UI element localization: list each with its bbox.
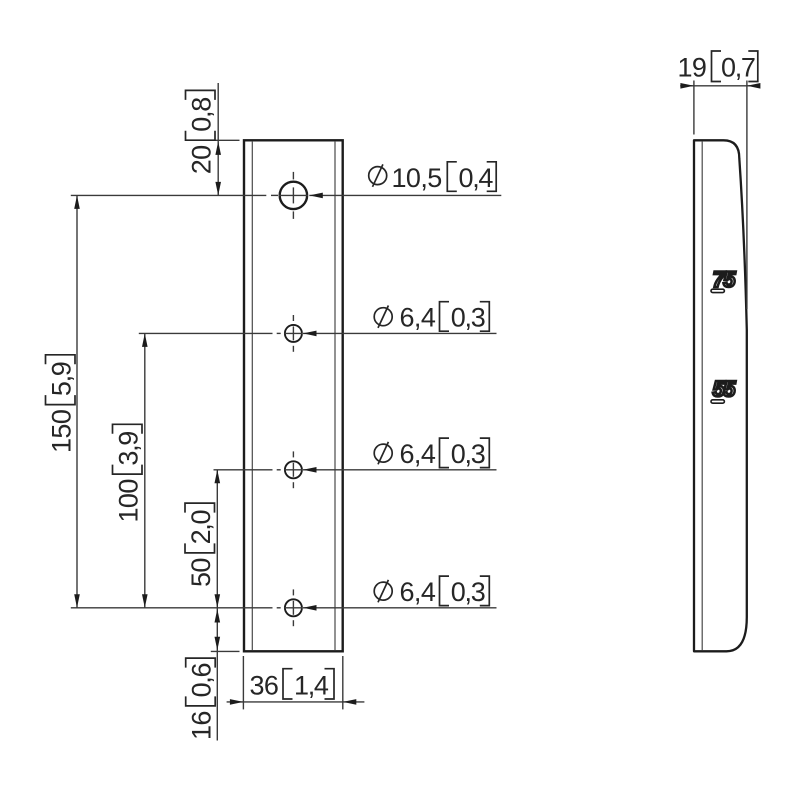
dim 16 line [216,608,218,741]
dim 19 extension lines [693,81,695,135]
centerline hole 2 vertical [292,315,294,321]
leader hole 1 [309,194,501,196]
svg-text:20: 20 [187,145,217,174]
svg-text:0,7: 0,7 [721,53,755,83]
dim 16 extension line (bottom edge) [211,650,240,652]
svg-text:1,4: 1,4 [294,671,329,701]
svg-text:0,3: 0,3 [451,577,485,607]
svg-text:2,0: 2,0 [186,510,216,544]
side view profile [694,140,747,651]
svg-text:150: 150 [47,410,77,453]
svg-text:19: 19 [678,53,707,83]
hole 1 (d10.5) [280,182,307,209]
dim text 50 [2,0] [185,503,216,587]
dim 150 line [76,195,78,607]
hole 2 (d6.4) [285,325,302,342]
centerline hole 4 horizontal [71,607,273,609]
centerline hole 1 vertical [292,172,294,180]
dim 20 extension line (top edge) [211,139,240,141]
leader hole 3 [303,469,497,471]
dim 20 line [217,83,219,195]
side view bend line [701,142,703,651]
dim 19 line [680,85,760,87]
svg-text:16: 16 [187,711,217,740]
leader hole 2 [303,332,497,334]
svg-text:0,8: 0,8 [187,98,217,132]
hole 3 (d6.4) [285,461,302,478]
svg-text:55: 55 [713,377,737,402]
svg-text:100: 100 [114,479,144,522]
svg-text:6,4: 6,4 [400,577,436,607]
dim 100 line [144,333,146,607]
dim 36 line [227,701,365,703]
svg-text:5,9: 5,9 [47,362,77,396]
dim 36 extension lines [242,656,244,709]
svg-text:0,3: 0,3 [451,439,485,469]
centerline hole 3 horizontal [214,469,273,471]
callout d6,4 [0,3] hole 2 [374,308,392,326]
callout d10,5 [0,4] [369,167,387,185]
svg-text:6,4: 6,4 [400,303,436,333]
dim 50 line [216,470,218,608]
dim text 100 [3,9] [113,424,144,522]
centerline hole 4 vertical [292,589,294,595]
centerline hole 1 horizontal [71,194,266,196]
dim text 16 [0,6] [186,658,217,740]
centerline hole 2 horizontal [139,332,273,334]
callout d6,4 [0,3] hole 3 [374,444,392,462]
callout d6,4 [0,3] hole 4 [374,582,392,600]
dim text 150 [5,9] [46,355,77,453]
centerline hole 3 vertical [292,451,294,457]
svg-text:3,9: 3,9 [114,432,144,466]
svg-text:50: 50 [186,558,216,587]
front view right bend line [334,142,336,650]
svg-text:36: 36 [250,671,279,701]
svg-text:75: 75 [713,267,737,292]
svg-text:0,4: 0,4 [459,163,494,193]
leader hole 4 [303,607,497,609]
svg-text:0,3: 0,3 [451,303,485,333]
front view left bend line [251,142,253,650]
svg-text:0,6: 0,6 [187,663,217,697]
hole 4 (d6.4) [285,599,302,616]
svg-text:10,5: 10,5 [392,163,442,193]
svg-text:6,4: 6,4 [400,439,436,469]
front view plate outline [244,140,343,651]
dim text 20 [0,8] [186,90,217,174]
